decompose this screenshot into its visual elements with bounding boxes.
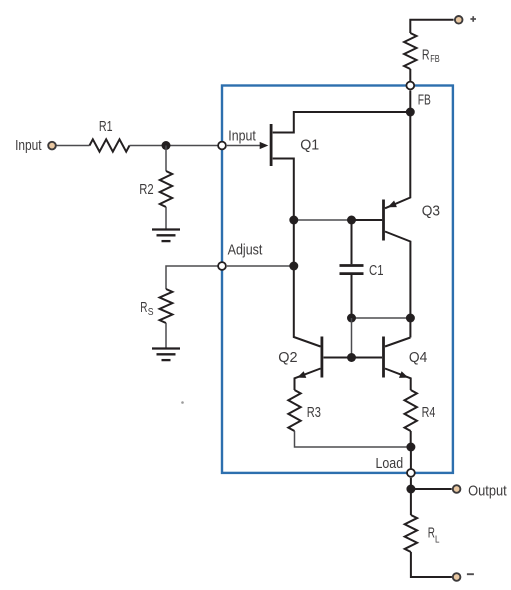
resistor RFB xyxy=(404,33,440,69)
junction R1/R2 xyxy=(162,141,171,150)
terminal + xyxy=(455,16,476,24)
svg-text:R4: R4 xyxy=(422,404,436,421)
svg-text:Input: Input xyxy=(15,137,42,154)
wire input terminal to R1 xyxy=(56,145,90,147)
resistor RS xyxy=(140,289,172,323)
junction C1 bottom xyxy=(347,314,356,323)
ground (below R2) xyxy=(152,230,180,242)
IC outline box xyxy=(222,86,453,473)
transistor Q3 xyxy=(384,112,441,338)
wire base rail to Q3 xyxy=(294,219,352,221)
wire R4 bottom xyxy=(410,431,412,447)
transistor Q1 xyxy=(271,124,319,221)
svg-text:R1: R1 xyxy=(99,118,113,135)
wire to Output terminal xyxy=(411,488,452,490)
node FB xyxy=(406,82,430,109)
wire Q3 base lead xyxy=(352,219,383,221)
wire Adjust pin to RS xyxy=(166,266,218,289)
svg-text:Adjust: Adjust xyxy=(228,242,263,259)
capacitor C1 xyxy=(340,220,384,318)
wire RS bottom lead xyxy=(165,323,167,348)
wire RFB to FB node xyxy=(409,69,411,81)
wire Adjust into box xyxy=(227,265,294,267)
svg-text:L: L xyxy=(435,535,440,546)
svg-text:C1: C1 xyxy=(369,262,384,279)
wire R2 top lead xyxy=(165,146,167,172)
svg-text:R3: R3 xyxy=(307,404,321,421)
wire to Load node xyxy=(410,447,412,469)
junction Q1 source / base rail xyxy=(289,216,298,225)
svg-text:FB: FB xyxy=(418,92,431,109)
wire mirror rail xyxy=(352,317,411,319)
svg-text:Q4: Q4 xyxy=(409,349,427,366)
wire Q2/Q4 base rail xyxy=(324,357,383,359)
wire top rail to Q1 drain xyxy=(273,112,411,133)
wire Q1 gate with arrow xyxy=(227,142,268,149)
junction C1 top xyxy=(347,216,356,225)
wire Q1 source to Q2 collector xyxy=(294,221,321,347)
junction output xyxy=(406,485,415,494)
junction FB rail xyxy=(406,108,415,117)
stray mark xyxy=(181,401,184,404)
terminal - xyxy=(453,573,474,581)
svg-text:Output: Output xyxy=(468,483,507,500)
wire R2 bottom lead xyxy=(165,207,167,229)
svg-text:S: S xyxy=(148,307,154,318)
resistor RL xyxy=(405,515,440,552)
junction collector rail xyxy=(406,314,415,323)
node Load xyxy=(376,455,415,477)
node Adjust xyxy=(218,242,263,270)
resistor R1 xyxy=(90,118,130,152)
svg-text:Q1: Q1 xyxy=(300,137,319,154)
terminal Input xyxy=(15,137,56,154)
junction Adjust rail xyxy=(289,262,298,271)
svg-text:Input: Input xyxy=(228,128,256,145)
wire Load node to output junction xyxy=(410,478,412,489)
node Input xyxy=(218,128,256,150)
transistor Q2 xyxy=(278,337,322,391)
svg-text:R2: R2 xyxy=(139,181,153,198)
svg-text:R: R xyxy=(140,299,147,316)
ground (below RS) xyxy=(152,349,180,361)
svg-text:Load: Load xyxy=(376,455,404,472)
resistor R2 xyxy=(139,171,172,207)
svg-text:Q3: Q3 xyxy=(422,203,440,220)
transistor Q4 xyxy=(384,337,428,391)
junction base rail xyxy=(347,353,356,362)
terminal Output xyxy=(453,483,508,500)
wire output junction to RL xyxy=(410,489,412,515)
wire R3 bottom xyxy=(295,431,411,447)
wire + terminal to RFB xyxy=(410,20,453,33)
junction load rail xyxy=(406,443,415,452)
svg-text:FB: FB xyxy=(430,54,440,65)
svg-text:R: R xyxy=(428,525,435,542)
svg-text:Q2: Q2 xyxy=(278,349,297,366)
wire R1 to Input pin xyxy=(130,145,218,147)
svg-text:R: R xyxy=(422,47,430,64)
wire C1 bottom to base rail xyxy=(351,318,353,358)
wire RL to - terminal xyxy=(411,552,452,577)
resistor R3 xyxy=(288,390,321,431)
resistor R4 xyxy=(405,390,436,431)
wire FB node into box xyxy=(409,90,411,112)
